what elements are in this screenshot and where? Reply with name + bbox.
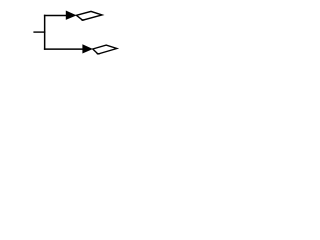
bottom fold dot of top wing quad <box>81 19 85 20</box>
wire: bottom branch <box>44 48 83 50</box>
arrowhead: bottom branch nose triangle <box>82 44 93 53</box>
wire: vertical branch bus <box>44 15 46 50</box>
wing quad: bottom output symbol <box>93 45 117 54</box>
arrowhead: top branch nose triangle <box>66 11 77 20</box>
wire: input stub <box>33 31 45 33</box>
wire: top branch <box>44 15 66 17</box>
bottom fold dot of bottom wing quad <box>96 53 100 54</box>
wing quad: top output symbol <box>76 11 102 20</box>
